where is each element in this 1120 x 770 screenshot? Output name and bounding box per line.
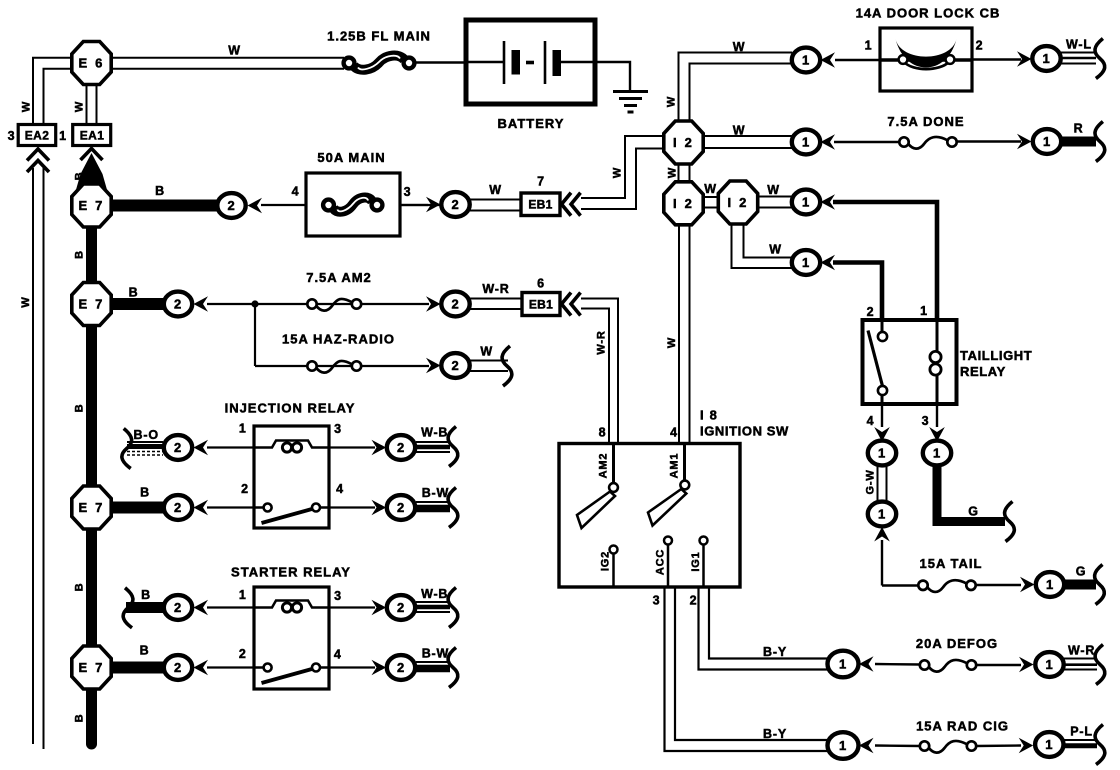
svg-text:3: 3 [922, 414, 930, 428]
svg-text:4: 4 [670, 426, 678, 440]
svg-text:20A DEFOG: 20A DEFOG [916, 636, 998, 651]
svg-text:EA1: EA1 [80, 128, 105, 142]
svg-text:INJECTION RELAY: INJECTION RELAY [225, 401, 356, 416]
svg-text:RELAY: RELAY [960, 364, 1006, 379]
svg-text:EA2: EA2 [25, 128, 50, 142]
svg-text:7.5A DONE: 7.5A DONE [887, 114, 964, 129]
svg-text:E 7: E 7 [78, 198, 104, 213]
svg-text:3: 3 [404, 185, 412, 199]
svg-text:W: W [666, 167, 678, 178]
svg-text:I 2: I 2 [673, 135, 694, 150]
svg-text:E 7: E 7 [78, 297, 104, 312]
svg-text:2: 2 [174, 500, 182, 515]
svg-text:E 6: E 6 [78, 56, 104, 71]
svg-text:1: 1 [839, 738, 847, 753]
svg-text:W-R: W-R [1068, 644, 1095, 658]
svg-text:E 7: E 7 [78, 660, 104, 675]
svg-text:4: 4 [336, 482, 344, 496]
svg-text:2: 2 [451, 297, 459, 312]
svg-text:50A MAIN: 50A MAIN [317, 150, 385, 165]
svg-text:15A RAD CIG: 15A RAD CIG [916, 719, 1009, 734]
svg-text:B: B [140, 644, 150, 658]
svg-text:AM1: AM1 [668, 453, 680, 479]
svg-text:2: 2 [174, 297, 182, 312]
svg-text:2: 2 [174, 440, 182, 455]
svg-text:EB1: EB1 [529, 297, 553, 311]
svg-text:2: 2 [174, 660, 182, 675]
svg-text:B: B [73, 714, 85, 723]
svg-text:W: W [733, 40, 746, 54]
svg-text:G: G [968, 505, 979, 519]
svg-text:W-B: W-B [421, 587, 448, 601]
svg-text:B: B [140, 486, 150, 500]
svg-text:3: 3 [334, 589, 342, 603]
svg-text:2: 2 [976, 39, 984, 53]
svg-text:1: 1 [865, 39, 873, 53]
svg-text:B-W: B-W [422, 647, 449, 661]
svg-text:4: 4 [292, 185, 300, 199]
svg-text:W-B: W-B [421, 426, 448, 440]
svg-text:B-Y: B-Y [763, 727, 787, 741]
svg-text:3: 3 [8, 129, 16, 143]
svg-text:W: W [228, 44, 241, 58]
svg-text:1: 1 [1043, 134, 1051, 149]
svg-text:1: 1 [1045, 657, 1053, 672]
svg-text:1: 1 [802, 135, 810, 150]
svg-text:1: 1 [1045, 737, 1053, 752]
svg-text:E 7: E 7 [78, 500, 104, 515]
svg-text:ACC: ACC [654, 549, 666, 575]
svg-text:6: 6 [537, 277, 545, 291]
svg-text:I 2: I 2 [727, 195, 748, 210]
svg-text:15A TAIL: 15A TAIL [920, 556, 983, 571]
svg-text:1: 1 [239, 588, 247, 602]
svg-text:2: 2 [451, 197, 459, 212]
svg-text:W: W [733, 124, 746, 138]
svg-text:1: 1 [1046, 577, 1054, 592]
svg-text:7.5A AM2: 7.5A AM2 [306, 270, 372, 285]
svg-text:1: 1 [920, 304, 928, 318]
svg-text:W: W [20, 296, 32, 307]
svg-text:W: W [20, 101, 32, 112]
svg-text:8: 8 [599, 426, 607, 440]
svg-text:1: 1 [802, 53, 810, 68]
svg-text:W-R: W-R [482, 282, 509, 296]
svg-text:15A HAZ-RADIO: 15A HAZ-RADIO [282, 332, 395, 347]
svg-text:W: W [489, 183, 502, 197]
svg-text:R: R [1074, 122, 1084, 136]
svg-text:P-L: P-L [1070, 725, 1093, 739]
svg-text:W: W [73, 101, 85, 112]
svg-text:I 2: I 2 [673, 196, 694, 211]
svg-text:1: 1 [802, 255, 810, 270]
svg-text:B: B [155, 184, 165, 198]
svg-text:W: W [611, 167, 623, 178]
svg-text:2: 2 [397, 500, 405, 515]
svg-text:2: 2 [397, 440, 405, 455]
svg-text:B-Y: B-Y [763, 645, 787, 659]
svg-text:W: W [769, 243, 782, 257]
svg-text:B: B [73, 172, 85, 181]
svg-text:W: W [666, 337, 678, 348]
svg-text:B: B [73, 583, 85, 592]
svg-text:IG1: IG1 [690, 551, 702, 571]
svg-text:4: 4 [334, 648, 342, 662]
svg-text:1: 1 [839, 657, 847, 672]
svg-text:14A DOOR LOCK CB: 14A DOOR LOCK CB [856, 6, 1001, 21]
svg-text:3: 3 [334, 422, 342, 436]
svg-text:I 8: I 8 [700, 408, 718, 423]
svg-text:4: 4 [867, 414, 875, 428]
svg-text:2: 2 [241, 482, 249, 496]
svg-text:W: W [480, 344, 493, 358]
svg-text:1: 1 [878, 446, 886, 461]
svg-text:G-W: G-W [864, 469, 876, 494]
svg-text:2: 2 [397, 600, 405, 615]
svg-text:BATTERY: BATTERY [498, 116, 565, 131]
svg-text:2: 2 [867, 305, 875, 319]
svg-text:IG2: IG2 [599, 551, 611, 571]
svg-text:B: B [73, 404, 85, 413]
svg-text:1: 1 [802, 195, 810, 210]
svg-text:1: 1 [1042, 51, 1050, 66]
svg-text:2: 2 [174, 600, 182, 615]
svg-text:G: G [1076, 565, 1087, 579]
svg-text:EB1: EB1 [528, 198, 552, 212]
svg-text:W: W [704, 182, 717, 196]
svg-text:B: B [141, 588, 151, 602]
svg-text:W-R: W-R [595, 330, 607, 354]
svg-text:1: 1 [878, 507, 886, 522]
svg-text:B-O: B-O [134, 428, 159, 442]
svg-text:IGNITION SW: IGNITION SW [700, 424, 789, 439]
svg-text:1: 1 [933, 446, 941, 461]
svg-text:STARTER RELAY: STARTER RELAY [231, 565, 351, 580]
svg-text:2: 2 [227, 198, 235, 213]
svg-text:2: 2 [451, 358, 459, 373]
svg-text:3: 3 [653, 594, 661, 608]
svg-text:B: B [129, 286, 139, 300]
svg-text:W: W [767, 183, 780, 197]
svg-text:7: 7 [537, 175, 545, 189]
svg-text:1: 1 [59, 129, 67, 143]
svg-text:1: 1 [239, 422, 247, 436]
svg-text:W: W [665, 96, 677, 107]
svg-text:B: B [73, 250, 85, 259]
svg-text:AM2: AM2 [597, 453, 609, 479]
svg-text:2: 2 [397, 660, 405, 675]
svg-text:W-L: W-L [1066, 38, 1092, 52]
svg-text:2: 2 [239, 647, 247, 661]
svg-text:2: 2 [690, 594, 698, 608]
svg-text:B-W: B-W [422, 486, 449, 500]
svg-text:1.25B FL MAIN: 1.25B FL MAIN [327, 29, 431, 44]
svg-text:TAILLIGHT: TAILLIGHT [960, 348, 1032, 363]
